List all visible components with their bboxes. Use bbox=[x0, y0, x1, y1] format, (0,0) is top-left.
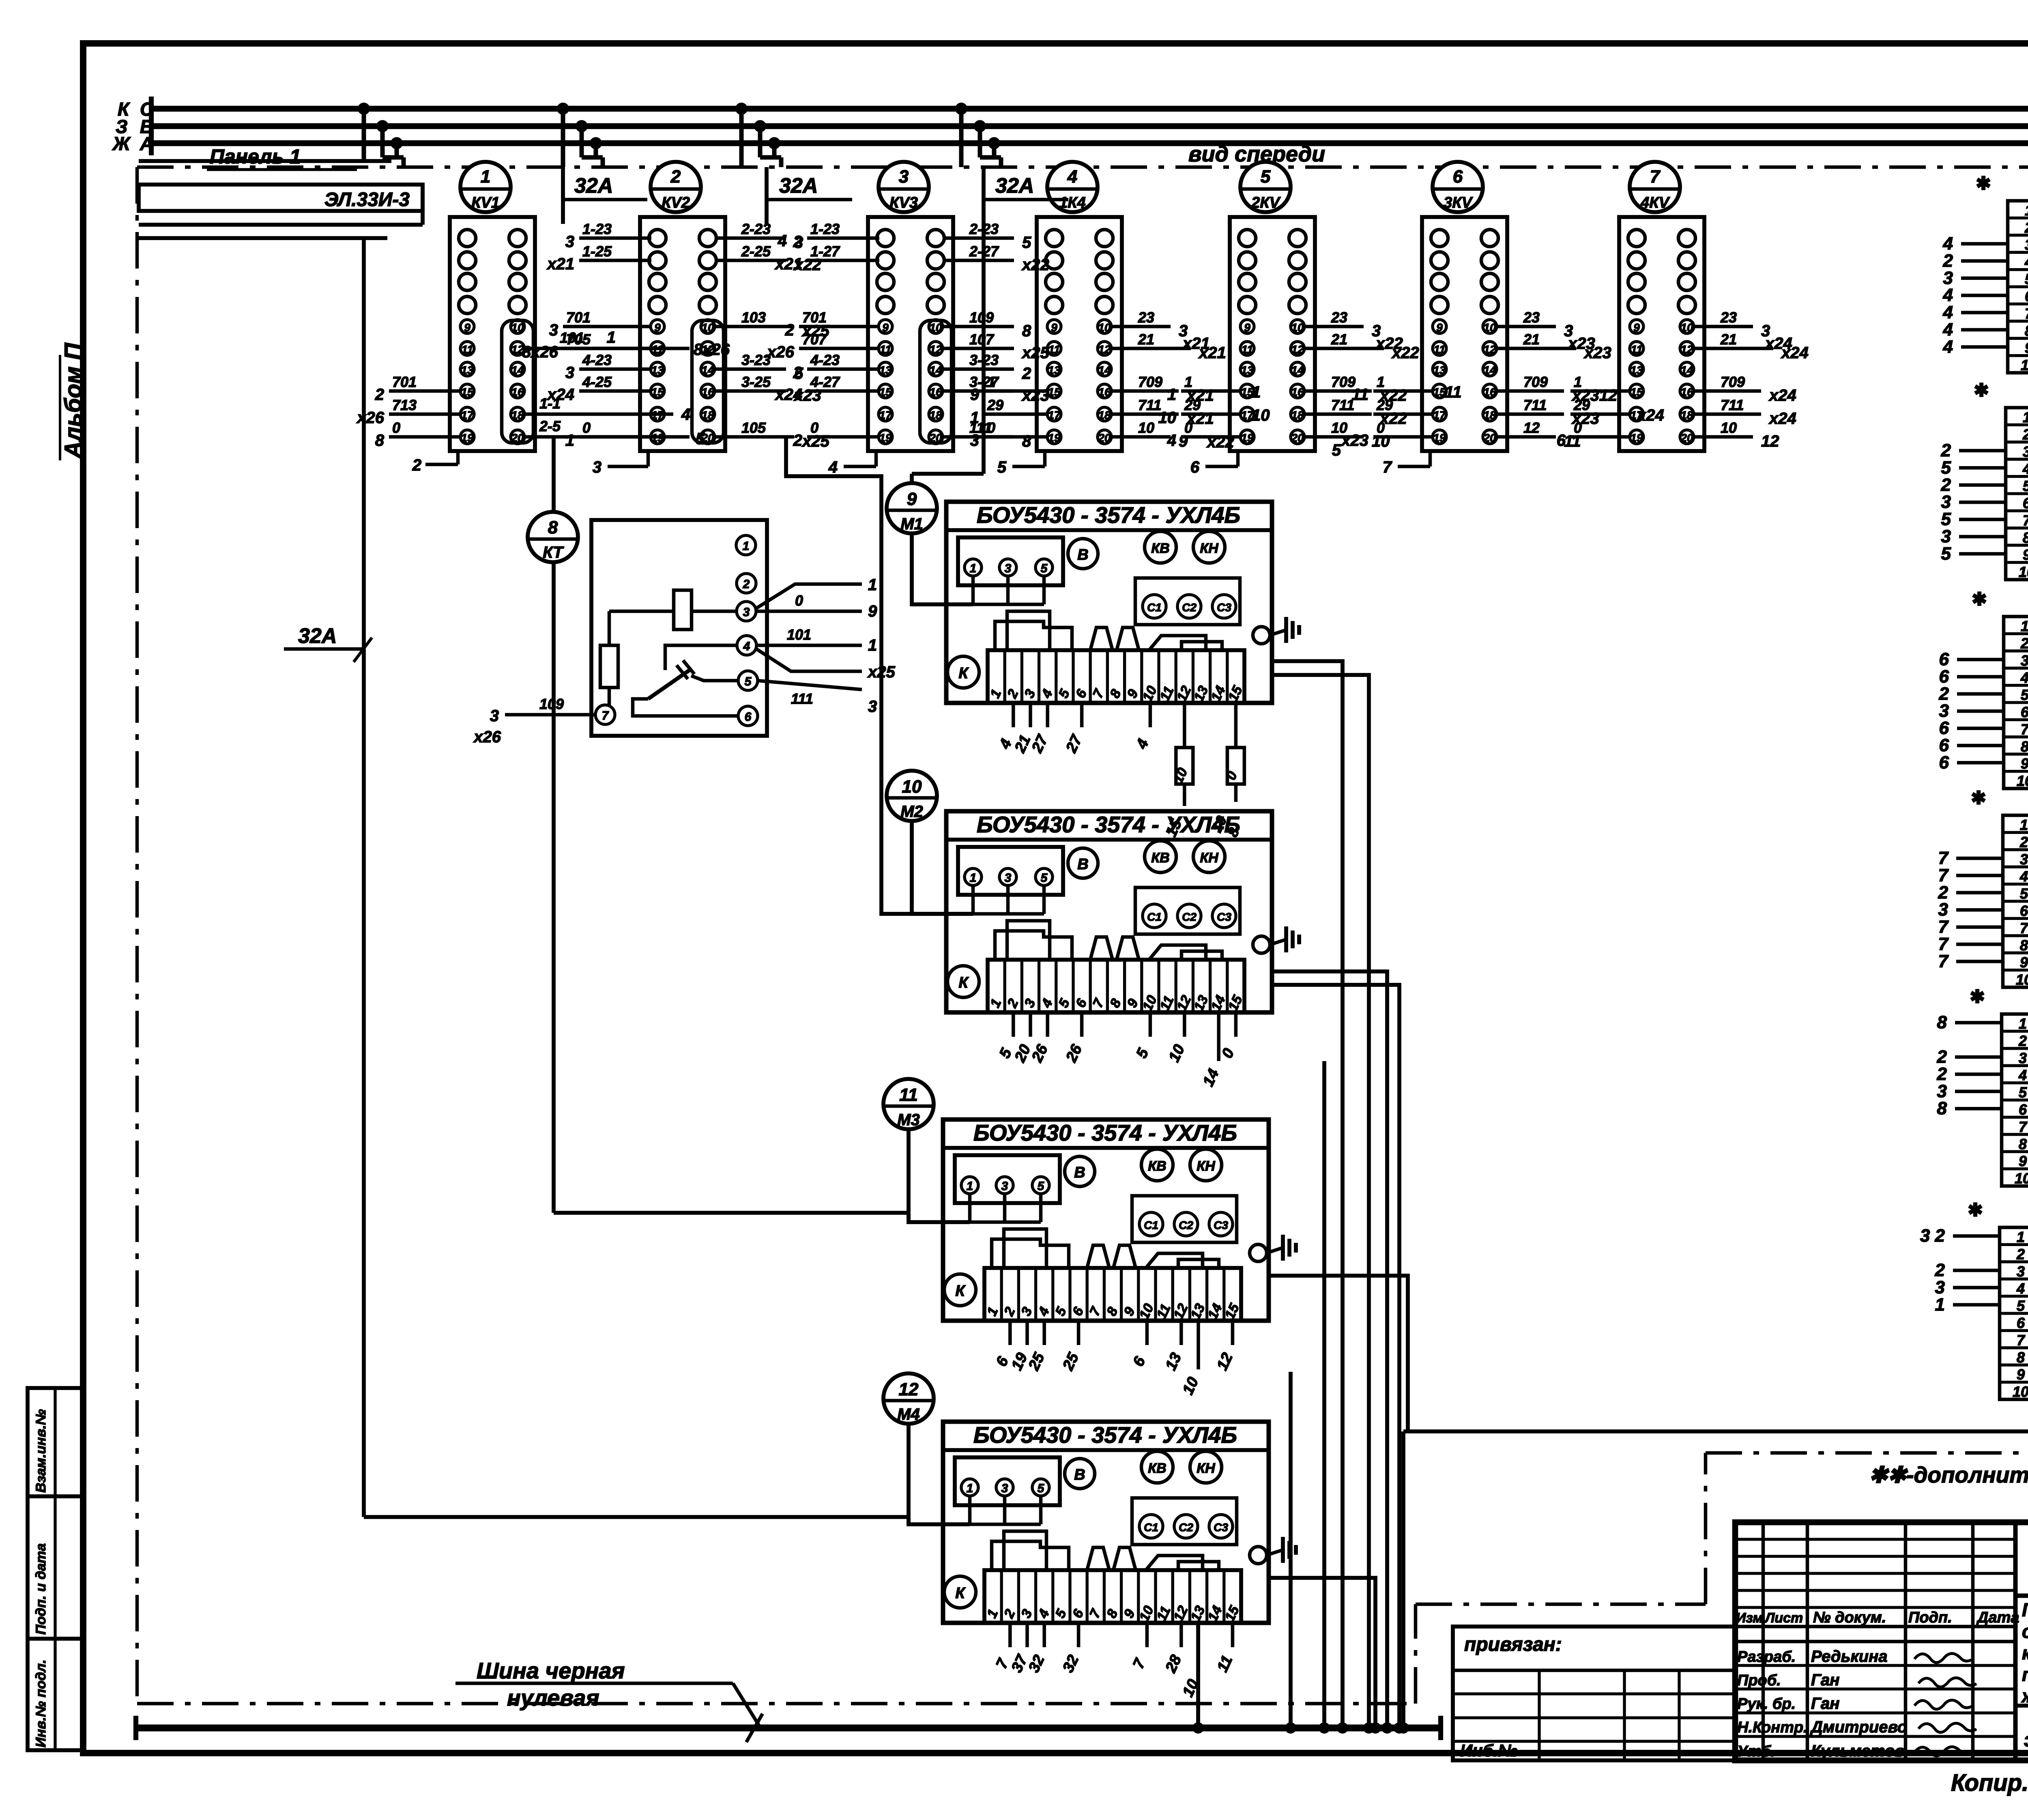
wire stub bbox=[1497, 413, 1564, 416]
time relay KT body bbox=[591, 520, 767, 736]
motor starter М2 header circle bbox=[887, 771, 937, 821]
svg-text:С1: С1 bbox=[1147, 911, 1162, 923]
svg-text:14: 14 bbox=[701, 364, 714, 376]
х24 stub row 6 bbox=[1956, 908, 2003, 912]
relay КV2 header circle bbox=[651, 162, 701, 212]
М4 strip wire stub cell 6 bbox=[1077, 1623, 1081, 1647]
wire stub bbox=[1497, 389, 1564, 393]
privyazan box bbox=[1453, 1627, 1735, 1760]
svg-text:711: 711 bbox=[1331, 397, 1354, 413]
svg-text:2: 2 bbox=[785, 321, 794, 339]
svg-text:4: 4 bbox=[2016, 1280, 2025, 1297]
svg-text:5: 5 bbox=[2021, 687, 2028, 703]
svg-text:14: 14 bbox=[1291, 364, 1304, 376]
KT switch contact bbox=[665, 645, 737, 670]
svg-text:701: 701 bbox=[802, 309, 827, 326]
svg-text:КВ: КВ bbox=[1151, 850, 1169, 866]
М1 ground terminal bbox=[1253, 627, 1270, 644]
svg-text:4: 4 bbox=[2019, 868, 2028, 885]
М2 circle K bbox=[947, 966, 979, 997]
wire stub bbox=[984, 389, 1048, 393]
svg-text:1: 1 bbox=[1184, 374, 1192, 390]
svg-text:К: К bbox=[958, 974, 969, 991]
svg-text:Инб.№: Инб.№ bbox=[1460, 1741, 1517, 1760]
wire stub bbox=[1694, 435, 1753, 439]
svg-text:10: 10 bbox=[1098, 321, 1111, 334]
х21 stub row 5 bbox=[1961, 277, 2008, 280]
svg-text:2: 2 bbox=[2020, 635, 2028, 651]
svg-text:1: 1 bbox=[967, 1482, 973, 1495]
х25 stub row 1 bbox=[1955, 1021, 2002, 1025]
М2 strip wire stub cell 2 bbox=[1012, 1012, 1015, 1037]
М3 circle KV bbox=[1141, 1149, 1173, 1181]
svg-text:С2: С2 bbox=[1179, 1219, 1193, 1231]
svg-text:13: 13 bbox=[461, 364, 474, 376]
х22 stub row 5 bbox=[1959, 483, 2006, 487]
svg-text:Н.Контр.: Н.Контр. bbox=[1737, 1719, 1808, 1736]
svg-text:1: 1 bbox=[1167, 386, 1176, 404]
wire M1 ground drop bbox=[1272, 661, 1343, 1728]
panel 1 dashed boundary top bbox=[137, 165, 2028, 169]
svg-text:9: 9 bbox=[970, 386, 980, 404]
М4 input terminals box bbox=[955, 1457, 1060, 1505]
wire stub bbox=[1236, 451, 1240, 466]
М2 strip wire stub cell 15 bbox=[1234, 1012, 1238, 1037]
svg-text:7: 7 bbox=[1650, 167, 1661, 187]
svg-text:1: 1 bbox=[967, 1180, 973, 1193]
motor starter М1 body bbox=[946, 502, 1272, 703]
М2 strip wire stub cell 14 bbox=[1217, 1012, 1220, 1061]
svg-text:711: 711 bbox=[1523, 397, 1547, 413]
svg-text:709: 709 bbox=[1721, 374, 1745, 390]
svg-text:18: 18 bbox=[511, 409, 524, 421]
х24 stub row 5 bbox=[1956, 891, 2003, 895]
motor starter М3 header circle bbox=[883, 1079, 934, 1129]
svg-text:9: 9 bbox=[2017, 1366, 2025, 1383]
svg-text:6: 6 bbox=[2023, 495, 2028, 511]
wire stub bbox=[1181, 389, 1241, 393]
bus ZV green phase line bbox=[151, 123, 2028, 129]
svg-text:10: 10 bbox=[1158, 409, 1177, 427]
svg-text:8х26: 8х26 bbox=[522, 343, 559, 361]
svg-text:6: 6 bbox=[2020, 902, 2028, 919]
wire stub bbox=[1181, 435, 1241, 439]
М1 capacitors box bbox=[1135, 578, 1240, 625]
svg-text:5: 5 bbox=[1941, 544, 1951, 563]
svg-text:Лист: Лист bbox=[1764, 1610, 1803, 1626]
svg-text:0: 0 bbox=[795, 592, 803, 609]
М4 circle KV bbox=[1141, 1451, 1173, 1483]
х23 stub row 8 bbox=[1957, 744, 2004, 748]
svg-text:0: 0 bbox=[1574, 419, 1582, 436]
svg-text:✱: ✱ bbox=[1972, 589, 1987, 609]
svg-text:1: 1 bbox=[970, 409, 979, 427]
wire stub bbox=[1373, 435, 1433, 439]
svg-text:Подп. и дата: Подп. и дата bbox=[33, 1543, 49, 1635]
wire M4 ground drop bbox=[1269, 1578, 1375, 1728]
svg-text:11: 11 bbox=[461, 343, 473, 356]
wire stub bbox=[943, 389, 1014, 393]
М1 input terminals box bbox=[958, 537, 1063, 585]
svg-text:11: 11 bbox=[1048, 343, 1060, 356]
svg-text:7: 7 bbox=[2021, 721, 2028, 737]
wire B to M3 input bbox=[554, 1211, 909, 1215]
feeder wire to M1 bbox=[982, 167, 986, 474]
wire stub bbox=[874, 451, 878, 466]
svg-text:2-5: 2-5 bbox=[539, 418, 561, 434]
svg-text:32А: 32А bbox=[995, 174, 1034, 198]
svg-text:С3: С3 bbox=[1214, 1521, 1228, 1534]
svg-text:7: 7 bbox=[2020, 920, 2028, 936]
svg-text:Градирня четырехсекционная: Градирня четырехсекционная bbox=[2022, 1599, 2028, 1620]
wire 2-5 bbox=[526, 435, 690, 439]
svg-text:1: 1 bbox=[2023, 409, 2028, 425]
wire stub bbox=[1373, 413, 1433, 416]
svg-text:В: В bbox=[1074, 1466, 1085, 1483]
М3 strip wire stub cell 4 bbox=[1042, 1321, 1046, 1345]
relay 1К4 header circle bbox=[1047, 162, 1098, 212]
svg-text:18: 18 bbox=[1483, 409, 1496, 421]
М1 strip wire stub cell 3 bbox=[1029, 703, 1032, 727]
х25 stub row 5 bbox=[1955, 1090, 2002, 1094]
svg-text:3-25: 3-25 bbox=[741, 374, 771, 390]
svg-text:14: 14 bbox=[1680, 364, 1693, 376]
svg-text:Редькина: Редькина bbox=[1811, 1648, 1887, 1665]
svg-text:3: 3 bbox=[970, 432, 979, 449]
svg-text:С2: С2 bbox=[1179, 1521, 1193, 1534]
svg-text:111: 111 bbox=[791, 690, 813, 707]
panel 1 dashed boundary left bbox=[135, 167, 139, 1704]
х23 stub row 7 bbox=[1957, 726, 2004, 730]
М4 input wire bbox=[909, 1424, 970, 1524]
svg-text:Подп.: Подп. bbox=[1908, 1609, 1952, 1626]
svg-text:х26: х26 bbox=[356, 409, 384, 427]
wire stub bbox=[563, 325, 651, 329]
М1 strip wire stub cell 4 bbox=[1046, 703, 1049, 727]
svg-text:Ган: Ган bbox=[1811, 1671, 1839, 1689]
svg-text:6: 6 bbox=[1453, 167, 1463, 187]
svg-text:х24: х24 bbox=[1636, 406, 1664, 424]
wire stub bbox=[579, 389, 651, 393]
cable duct EL.33I-3 banner bbox=[139, 159, 391, 163]
wire stub bbox=[1694, 325, 1753, 329]
svg-text:19: 19 bbox=[879, 432, 892, 444]
svg-text:1: 1 bbox=[868, 576, 877, 594]
feeder drop wires bbox=[561, 167, 565, 224]
х22 stub row 7 bbox=[1959, 518, 2006, 521]
svg-text:8: 8 bbox=[1937, 1012, 1947, 1032]
svg-text:7: 7 bbox=[2023, 512, 2028, 529]
svg-text:х25: х25 bbox=[1021, 344, 1049, 362]
М4 strip wire stub cell 3 bbox=[1025, 1623, 1029, 1647]
svg-text:16: 16 bbox=[701, 386, 714, 398]
document code cell bbox=[2015, 1594, 2028, 1598]
wire stub bbox=[807, 389, 879, 393]
M1 boxed stub 12 bbox=[1176, 748, 1193, 784]
svg-text:3КV: 3КV bbox=[1444, 194, 1473, 211]
svg-text:109: 109 bbox=[969, 309, 994, 326]
svg-text:14: 14 bbox=[1483, 364, 1496, 376]
М3 circle V bbox=[1065, 1156, 1095, 1186]
wire M1 aux drop bbox=[1272, 675, 1369, 1728]
svg-text:18: 18 bbox=[929, 409, 942, 421]
svg-text:10: 10 bbox=[1138, 419, 1154, 436]
svg-text:19: 19 bbox=[1630, 432, 1643, 444]
svg-text:16: 16 bbox=[1680, 386, 1693, 398]
svg-text:4: 4 bbox=[681, 406, 690, 423]
svg-text:9: 9 bbox=[2025, 340, 2028, 356]
svg-text:КН: КН bbox=[1200, 541, 1219, 556]
svg-text:привязан:: привязан: bbox=[1464, 1634, 1562, 1655]
wire stub bbox=[1111, 413, 1179, 416]
svg-text:10: 10 bbox=[1291, 321, 1304, 334]
svg-text:15: 15 bbox=[651, 386, 664, 398]
svg-text:Кульметов: Кульметов bbox=[1811, 1742, 1904, 1760]
svg-text:4: 4 bbox=[828, 458, 838, 476]
х22 stub row 8 bbox=[1959, 535, 2006, 539]
bus slash mark bbox=[746, 1714, 763, 1742]
М4 jumper hooks bbox=[992, 1541, 1069, 1570]
svg-text:1: 1 bbox=[607, 329, 616, 346]
svg-text:16: 16 bbox=[511, 386, 524, 398]
svg-text:4: 4 bbox=[778, 232, 787, 250]
svg-text:5: 5 bbox=[696, 430, 705, 448]
wire from banner down bbox=[362, 238, 366, 1517]
svg-text:3: 3 bbox=[565, 233, 574, 251]
svg-text:2: 2 bbox=[412, 456, 421, 474]
svg-text:29: 29 bbox=[987, 397, 1003, 413]
svg-text:1: 1 bbox=[2017, 1229, 2025, 1245]
wire stub bbox=[1304, 325, 1364, 329]
wire stub bbox=[807, 259, 879, 262]
М4 capacitors box bbox=[1132, 1498, 1237, 1545]
svg-text:С3: С3 bbox=[1217, 601, 1231, 614]
svg-text:9: 9 bbox=[2023, 546, 2028, 563]
relay КV1 contact bracket bbox=[502, 320, 533, 443]
х22 stub row 3 bbox=[1959, 449, 2006, 453]
svg-text:С3: С3 bbox=[1217, 911, 1231, 923]
М3 capacitors box bbox=[1132, 1196, 1237, 1242]
svg-text:2: 2 bbox=[2024, 219, 2028, 236]
svg-text:✱: ✱ bbox=[1976, 174, 1991, 193]
svg-text:Ган: Ган bbox=[1811, 1695, 1839, 1713]
wire stub bbox=[647, 451, 650, 466]
svg-text:32А: 32А bbox=[298, 624, 337, 648]
М3 circle KN bbox=[1190, 1149, 1222, 1181]
svg-text:Шина черная: Шина черная bbox=[477, 1658, 625, 1683]
wire stub bbox=[1429, 451, 1432, 466]
svg-text:В: В bbox=[1074, 1164, 1085, 1181]
svg-text:3: 3 bbox=[2021, 652, 2028, 669]
М2 capacitors box bbox=[1135, 887, 1240, 934]
М2 strip wire stub cell 6 bbox=[1080, 1012, 1084, 1037]
svg-text:С1: С1 bbox=[1144, 1521, 1158, 1534]
svg-text:2КV: 2КV bbox=[1251, 194, 1280, 211]
svg-text:705: 705 bbox=[566, 331, 591, 348]
panel boundary step bbox=[1414, 1604, 1418, 1704]
М1 strip wire stub cell 6 bbox=[1080, 703, 1084, 727]
wire stub bbox=[579, 435, 651, 439]
М1 strip wire stub cell 10 bbox=[1149, 703, 1152, 727]
svg-text:3: 3 bbox=[1001, 1482, 1008, 1495]
svg-text:13: 13 bbox=[1630, 364, 1643, 376]
svg-text:К: К bbox=[958, 665, 969, 682]
wire stub bbox=[943, 259, 1014, 262]
wire stub bbox=[1570, 435, 1631, 439]
KT terminal 5 bbox=[738, 671, 758, 690]
KT terminal 1 bbox=[736, 535, 756, 555]
х22 stub row 9 bbox=[1959, 552, 2006, 556]
М3 strip wire stub cell 3 bbox=[1025, 1321, 1029, 1345]
KT resistor bbox=[600, 645, 618, 688]
motor starter М3 body bbox=[943, 1120, 1269, 1321]
svg-text:Дата: Дата bbox=[1976, 1609, 2019, 1626]
svg-text:1: 1 bbox=[1574, 374, 1582, 390]
svg-text:Утб.: Утб. bbox=[1737, 1743, 1775, 1760]
х21 stub row 6 bbox=[1961, 294, 2008, 297]
svg-text:707: 707 bbox=[802, 331, 827, 348]
svg-text:х26: х26 bbox=[766, 343, 794, 361]
svg-text:БОУ5430 - 3574 - УХЛ4Б: БОУ5430 - 3574 - УХЛ4Б bbox=[973, 1120, 1237, 1145]
svg-text:701: 701 bbox=[566, 309, 591, 326]
svg-text:709: 709 bbox=[1138, 374, 1162, 390]
М3 ground terminal bbox=[1250, 1244, 1267, 1261]
svg-text:площадью 24м²с каркасом: площадью 24м²с каркасом bbox=[2022, 1664, 2028, 1685]
svg-text:105: 105 bbox=[741, 419, 766, 436]
svg-text:18: 18 bbox=[1098, 409, 1111, 421]
svg-text:9: 9 bbox=[654, 321, 661, 334]
wire stub bbox=[1497, 347, 1576, 350]
М3 input wire bbox=[909, 1129, 970, 1222]
svg-text:В: В bbox=[1077, 546, 1088, 563]
svg-text:3: 3 bbox=[1001, 1180, 1008, 1193]
svg-text:18: 18 bbox=[1680, 409, 1693, 421]
svg-text:КН: КН bbox=[1197, 1461, 1216, 1476]
svg-text:3: 3 bbox=[2019, 1050, 2027, 1066]
svg-text:БОУ5430 - 3574 - УХЛ4Б: БОУ5430 - 3574 - УХЛ4Б bbox=[977, 502, 1240, 528]
svg-text:КВ: КВ bbox=[1148, 1158, 1166, 1174]
long wire to X26 bbox=[1403, 1429, 2028, 1433]
svg-text:11: 11 bbox=[1631, 343, 1642, 356]
svg-text:4КV: 4КV bbox=[1640, 194, 1670, 211]
svg-text:М1: М1 bbox=[900, 515, 923, 533]
wire stub bbox=[807, 236, 879, 240]
svg-text:8: 8 bbox=[375, 432, 385, 449]
motor starter М2 body bbox=[946, 811, 1272, 1012]
svg-text:4: 4 bbox=[1067, 167, 1077, 187]
svg-text:3: 3 bbox=[2020, 851, 2028, 868]
svg-text:7: 7 bbox=[602, 709, 609, 722]
М4 circle K bbox=[944, 1576, 976, 1608]
svg-text:5: 5 bbox=[1041, 871, 1048, 885]
svg-text:БОУ5430 - 3574 - УХЛ4Б: БОУ5430 - 3574 - УХЛ4Б bbox=[977, 812, 1240, 837]
relay 4КV header circle bbox=[1630, 162, 1680, 212]
svg-text:13: 13 bbox=[651, 364, 664, 376]
svg-text:9: 9 bbox=[1436, 321, 1443, 334]
svg-text:2: 2 bbox=[2016, 1246, 2025, 1262]
М2 circle V bbox=[1068, 848, 1098, 878]
svg-text:1: 1 bbox=[1935, 1295, 1945, 1315]
svg-text:0: 0 bbox=[810, 419, 819, 436]
KT vertical feeder wire bbox=[552, 437, 556, 513]
wire stub bbox=[943, 236, 1014, 240]
х21 stub row 7 bbox=[1961, 311, 2008, 314]
svg-text:1: 1 bbox=[2019, 1015, 2027, 1032]
wire M3 strip drop bbox=[1289, 1372, 1293, 1728]
svg-text:1: 1 bbox=[743, 539, 750, 553]
svg-text:7: 7 bbox=[1383, 458, 1392, 476]
wire stub bbox=[984, 413, 1048, 416]
svg-text:11: 11 bbox=[879, 343, 891, 356]
relay КV3 body bbox=[868, 217, 953, 451]
svg-text:12: 12 bbox=[899, 1380, 919, 1399]
svg-text:23: 23 bbox=[1331, 309, 1347, 326]
svg-text:1: 1 bbox=[2021, 618, 2028, 634]
M1 boxed stub 15 bbox=[1227, 748, 1244, 784]
svg-text:2-25: 2-25 bbox=[741, 243, 771, 260]
svg-text:7: 7 bbox=[2025, 305, 2028, 322]
svg-text:1К4: 1К4 bbox=[1059, 194, 1086, 211]
svg-text:10: 10 bbox=[2019, 564, 2028, 580]
svg-text:21: 21 bbox=[1720, 331, 1737, 348]
х24 stub row 4 bbox=[1956, 874, 2003, 877]
М1 input wire bbox=[912, 533, 973, 604]
svg-text:1-23: 1-23 bbox=[582, 221, 612, 237]
svg-text:9: 9 bbox=[868, 602, 877, 620]
svg-text:13: 13 bbox=[879, 364, 892, 376]
svg-text:2: 2 bbox=[793, 432, 802, 449]
wire stub bbox=[1111, 389, 1179, 393]
svg-text:электрическая соедине-: электрическая соедине- bbox=[2024, 1728, 2028, 1751]
svg-text:11: 11 bbox=[899, 1085, 918, 1105]
KT terminal 3 bbox=[737, 602, 756, 621]
svg-text:32А: 32А bbox=[779, 174, 818, 198]
svg-text:8: 8 bbox=[548, 518, 558, 537]
relay 3КV body bbox=[1422, 217, 1507, 451]
х23 stub row 5 bbox=[1957, 692, 2004, 696]
svg-text:С2: С2 bbox=[1182, 911, 1197, 923]
svg-text:23: 23 bbox=[1523, 309, 1540, 326]
svg-text:12: 12 bbox=[1098, 343, 1111, 356]
svg-text:КН: КН bbox=[1197, 1158, 1216, 1174]
svg-text:Рук. бр.: Рук. бр. bbox=[1737, 1695, 1796, 1713]
х26 stub row 4 bbox=[1953, 1286, 2000, 1289]
М1 circle V bbox=[1068, 539, 1098, 569]
М3 strip wire stub cell 6 bbox=[1077, 1321, 1081, 1345]
svg-text:3 2: 3 2 bbox=[1920, 1226, 1945, 1246]
М2 strip wire stub cell 4 bbox=[1046, 1012, 1049, 1037]
wire stub bbox=[943, 325, 1014, 329]
svg-text:1: 1 bbox=[868, 636, 877, 654]
relay КV1 body bbox=[450, 217, 535, 451]
svg-text:х23: х23 bbox=[1341, 432, 1368, 449]
svg-text:3: 3 bbox=[743, 606, 750, 619]
svg-text:10: 10 bbox=[1483, 321, 1496, 334]
svg-text:10: 10 bbox=[1721, 419, 1737, 436]
svg-text:3: 3 bbox=[1005, 871, 1012, 885]
svg-text:1-23: 1-23 bbox=[810, 221, 840, 237]
bus tap junction bbox=[955, 103, 967, 115]
title block inner grid bbox=[2013, 1522, 2018, 1760]
svg-text:0: 0 bbox=[1184, 419, 1192, 436]
svg-text:1: 1 bbox=[970, 562, 977, 575]
М4 strip wire stub cell 13 bbox=[1197, 1623, 1200, 1672]
wire stub bbox=[943, 435, 1014, 439]
svg-text:29: 29 bbox=[1376, 397, 1393, 413]
svg-text:х24: х24 bbox=[546, 386, 574, 404]
left margin stamp box bbox=[28, 1388, 83, 1750]
svg-text:1: 1 bbox=[2020, 817, 2028, 833]
